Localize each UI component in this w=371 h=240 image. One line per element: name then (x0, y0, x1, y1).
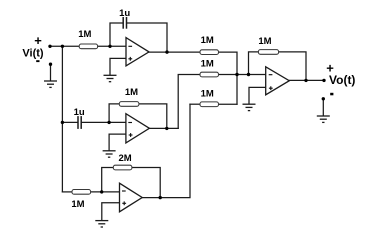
svg-text:+: + (34, 33, 42, 48)
svg-text:1M: 1M (201, 88, 214, 99)
svg-text:1u: 1u (74, 107, 85, 118)
svg-text:2M: 2M (118, 153, 131, 164)
svg-text:+: + (326, 61, 334, 76)
svg-text:Vi(t): Vi(t) (22, 48, 44, 60)
svg-text:1M: 1M (201, 35, 214, 46)
svg-text:1M: 1M (125, 87, 138, 98)
svg-text:1u: 1u (119, 8, 130, 19)
svg-text:1M: 1M (71, 199, 84, 210)
svg-text:1M: 1M (258, 36, 271, 47)
svg-text:1M: 1M (201, 58, 214, 69)
svg-text:1M: 1M (78, 29, 91, 40)
